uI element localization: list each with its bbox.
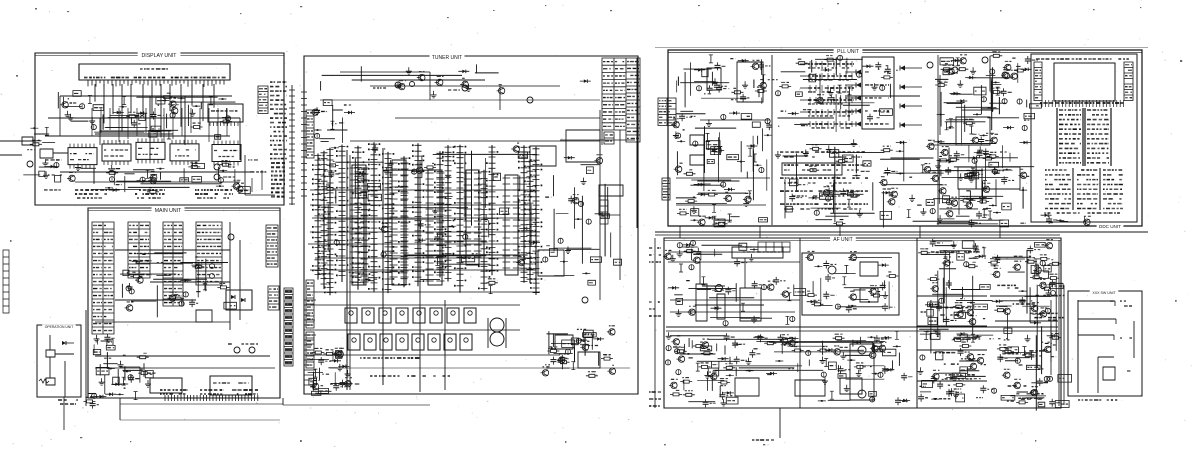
svg-text:MAIN UNIT: MAIN UNIT <box>155 208 182 214</box>
svg-text:XXX SW UNIT: XXX SW UNIT <box>1092 291 1116 295</box>
svg-text:DDC UNIT: DDC UNIT <box>1099 224 1121 229</box>
svg-text:OPERATION UNIT: OPERATION UNIT <box>45 325 74 329</box>
svg-text:DISPLAY UNIT: DISPLAY UNIT <box>142 53 178 59</box>
svg-text:TUNER UNIT: TUNER UNIT <box>432 55 462 61</box>
svg-text:AF UNIT: AF UNIT <box>833 237 852 243</box>
svg-text:PLL UNIT: PLL UNIT <box>837 49 859 55</box>
